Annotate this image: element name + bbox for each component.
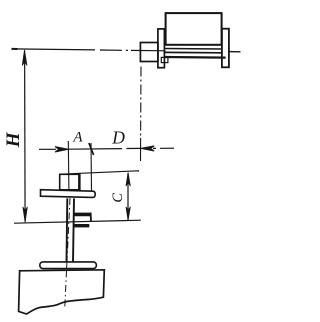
- svg-text:C: C: [110, 193, 126, 203]
- svg-text:A: A: [72, 130, 83, 146]
- svg-text:D: D: [111, 128, 125, 148]
- svg-text:H: H: [3, 131, 24, 148]
